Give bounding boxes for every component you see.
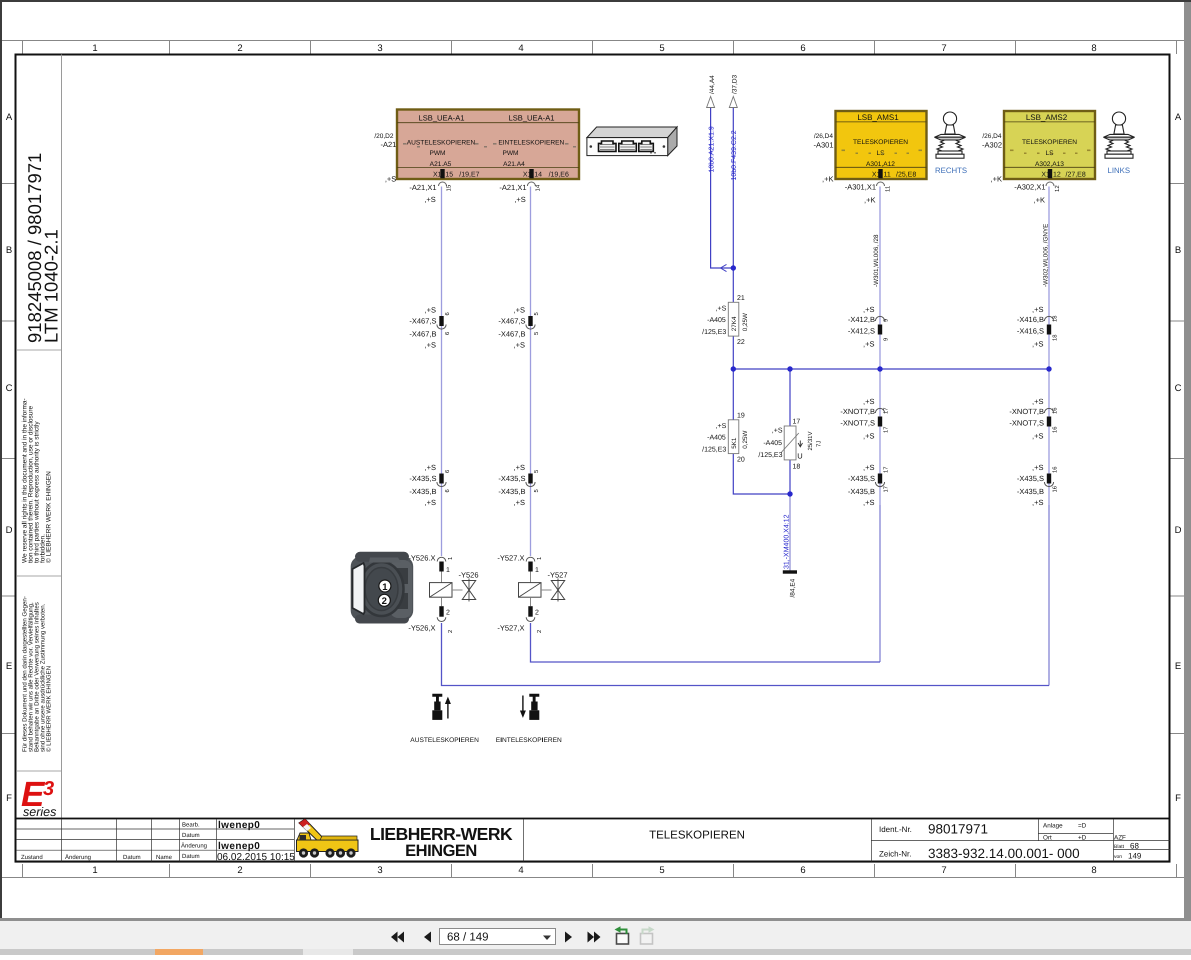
bottom ruler line (2, 877, 1184, 879)
top ruler ticks (23, 41, 1177, 55)
left band section lines (16, 350, 61, 771)
window right gray band (1184, 2, 1191, 921)
UEA left refs (374, 133, 394, 140)
icon: previous view (enabled) (615, 926, 629, 944)
svg-text:6: 6 (444, 489, 451, 492)
horizontal bus node S (733, 368, 1049, 370)
svg-text:© LIEBHERR WERK EHINGEN: © LIEBHERR WERK EHINGEN (46, 666, 53, 752)
svg-text:11: 11 (884, 171, 891, 178)
svg-text:,+S: ,+S (716, 305, 727, 312)
svg-text:C: C (6, 383, 13, 394)
svg-text:0,25W: 0,25W (742, 313, 749, 331)
svg-text:-X467,S: -X467,S (498, 317, 525, 326)
svg-text:-X467,B: -X467,B (498, 330, 525, 339)
svg-text:Bearb.: Bearb. (182, 822, 200, 829)
svg-text:,+S: ,+S (1032, 397, 1043, 406)
svg-text:1: 1 (537, 557, 543, 560)
connector photo Y526.X (351, 552, 414, 624)
svg-text:AZF: AZF (1114, 835, 1126, 842)
svg-text:RECHTS: RECHTS (935, 166, 967, 175)
anlage/ort cells (1043, 823, 1142, 861)
svg-text:/84,E4: /84,E4 (790, 578, 797, 597)
device block LSB_AMS1 (836, 111, 927, 179)
svg-text:,+S: ,+S (514, 306, 525, 315)
svg-text:9: 9 (883, 338, 890, 341)
svg-text:A21.A5: A21.A5 (430, 161, 452, 168)
svg-text:,+S: ,+S (425, 463, 436, 472)
wire UEA-A1 pin15 column (light) (441, 187, 443, 557)
svg-text:16: 16 (1052, 486, 1059, 492)
svg-text:68: 68 (1130, 842, 1139, 851)
svg-text:,+S: ,+S (863, 340, 874, 349)
svg-text:06.02.2015 10:15: 06.02.2015 10:15 (217, 852, 295, 863)
svg-text:/26,D4: /26,D4 (814, 133, 834, 140)
connector X435 (S/B pin 6) (409, 463, 451, 507)
E3 series logo (21, 775, 56, 819)
svg-text:14: 14 (534, 172, 542, 179)
svg-text:-A21: -A21 (380, 140, 396, 149)
svg-text:3: 3 (377, 865, 382, 876)
device block LSB_UEA-A1 (397, 110, 579, 180)
svg-text:68 / 149: 68 / 149 (447, 932, 489, 944)
left info band divider (61, 55, 63, 819)
svg-text:5: 5 (659, 43, 664, 54)
svg-text:-X467,S: -X467,S (409, 317, 436, 326)
wire varistor to junction (789, 460, 791, 494)
svg-text:/125,E3: /125,E3 (702, 328, 726, 336)
svg-text:C: C (1175, 383, 1182, 394)
svg-text:series: series (23, 805, 56, 819)
svg-text:-A302,X1: -A302,X1 (1014, 183, 1045, 192)
svg-text:2: 2 (535, 610, 539, 617)
junction node (731, 265, 736, 270)
svg-text:LSB_UEA-A1: LSB_UEA-A1 (418, 114, 464, 123)
svg-text:17: 17 (884, 467, 890, 473)
svg-text:3: 3 (43, 778, 54, 800)
solenoid valve Y527 (497, 554, 567, 634)
svg-text:,+S: ,+S (772, 428, 783, 435)
direction arrow on wire (721, 264, 727, 271)
UEA pin sockets below block (439, 182, 447, 186)
svg-text:PWM: PWM (502, 150, 518, 157)
svg-text:TELESKOPIEREN: TELESKOPIEREN (649, 830, 745, 842)
svg-text:/20,D2: /20,D2 (374, 133, 394, 140)
svg-text:,+S: ,+S (716, 423, 727, 430)
svg-text:,+S: ,+S (425, 498, 436, 507)
svg-text:/25,E8: /25,E8 (896, 170, 916, 178)
svg-text:-A405: -A405 (707, 317, 726, 324)
svg-text:2: 2 (446, 610, 450, 617)
svg-text:5: 5 (659, 865, 664, 876)
svg-text:EHINGEN: EHINGEN (405, 842, 477, 860)
svg-text:F: F (1175, 793, 1181, 804)
svg-text:20: 20 (737, 456, 745, 463)
svg-text:AUSTELESKOPIEREN: AUSTELESKOPIEREN (410, 737, 479, 744)
svg-text:,+S: ,+S (514, 195, 525, 204)
solenoid valve Y526 (408, 554, 478, 634)
wire below resistor A405/27K4 (732, 336, 734, 420)
svg-text:/44,A4: /44,A4 (709, 75, 716, 94)
svg-text:A302,A13: A302,A13 (1035, 161, 1064, 168)
svg-text:,+S: ,+S (1032, 463, 1043, 472)
svg-text:Datum: Datum (123, 854, 141, 861)
svg-text:7J: 7J (816, 441, 823, 447)
wire Y527 to AMS1 routing (531, 623, 881, 662)
svg-text:-Y526,X: -Y526,X (408, 624, 435, 633)
off-page arrow /44,A4 (707, 97, 715, 108)
taskbar orange thumb (155, 949, 203, 955)
svg-text:1: 1 (448, 557, 454, 560)
svg-text:,+S: ,+S (425, 306, 436, 315)
svg-text:,+S: ,+S (863, 397, 874, 406)
svg-text:A: A (6, 112, 13, 123)
svg-text:5: 5 (534, 470, 540, 473)
nav last button (588, 932, 601, 943)
page combo box (440, 929, 556, 945)
ruler column numbers bottom (92, 865, 1096, 876)
svg-text:EINTELESKOPIEREN: EINTELESKOPIEREN (498, 140, 564, 147)
svg-text:/37,D3: /37,D3 (732, 74, 739, 94)
svg-text:27K4: 27K4 (731, 316, 738, 331)
svg-text:-Y527,X: -Y527,X (497, 624, 524, 633)
row letters left (6, 112, 13, 804)
svg-text:,+S: ,+S (425, 341, 436, 350)
svg-text:LSB_AMS1: LSB_AMS1 (857, 113, 899, 122)
svg-text:1: 1 (446, 567, 450, 574)
svg-text:8: 8 (1091, 43, 1096, 54)
svg-text:-X435,S: -X435,S (1017, 474, 1044, 483)
svg-text:6: 6 (444, 470, 451, 473)
icon EINTELESKOPIEREN (520, 694, 539, 720)
svg-text:A21.A4: A21.A4 (503, 161, 525, 168)
connector XNOT7 (B/S pin 16) (1009, 397, 1058, 441)
right row ticks (1170, 184, 1184, 734)
junction node (1046, 366, 1051, 371)
nav first-page button (391, 932, 404, 943)
wire Y526 to AMS2 routing (442, 623, 1050, 686)
svg-text:-A302: -A302 (982, 141, 1002, 150)
svg-text:-XNOT7,B: -XNOT7,B (840, 407, 875, 416)
svg-text:6: 6 (444, 332, 451, 335)
svg-text:7: 7 (941, 43, 946, 54)
svg-text:17: 17 (793, 419, 801, 426)
svg-text:D: D (6, 525, 13, 536)
svg-text:6: 6 (800, 43, 805, 54)
connector X435 (S/B pin 5) (498, 463, 540, 507)
svg-text:-X416,B: -X416,B (1017, 315, 1044, 324)
svg-text:TELESKOPIEREN: TELESKOPIEREN (1022, 139, 1077, 146)
svg-text:149: 149 (1128, 852, 1142, 861)
svg-text:1: 1 (92, 43, 97, 54)
svg-text:3383-932.14.00.001- 000: 3383-932.14.00.001- 000 (928, 846, 1080, 861)
joystick icon LINKS (1104, 112, 1135, 158)
svg-text:PWM: PWM (429, 150, 445, 157)
junction node (787, 491, 792, 496)
svg-text:-X467,B: -X467,B (409, 330, 436, 339)
svg-text:17: 17 (884, 486, 890, 492)
svg-text:-X435,B: -X435,B (498, 487, 525, 496)
svg-text:,+S: ,+S (385, 175, 396, 184)
svg-text:lwenep0: lwenep0 (218, 820, 260, 831)
revision table lines (16, 819, 1170, 862)
junction node (731, 366, 736, 371)
svg-text:Ort: Ort (1043, 835, 1052, 842)
german disclaimer rotated (22, 596, 53, 752)
connector X435 (S/B pin 17) (848, 463, 890, 507)
wire 10b0.F439.C2.2 (732, 108, 734, 303)
svg-text:10b0.F439.C2.2: 10b0.F439.C2.2 (730, 130, 738, 180)
viewer toolbar background (0, 921, 1191, 949)
window top edge (0, 0, 1191, 2)
svg-text:11: 11 (885, 185, 892, 192)
svg-text:+D: +D (1078, 835, 1087, 842)
svg-text:-X435,S: -X435,S (848, 474, 875, 483)
svg-text:LINKS: LINKS (1108, 166, 1131, 175)
device block LSB_AMS2 (1004, 111, 1095, 179)
svg-text:31,-XM400,X4:12: 31,-XM400,X4:12 (784, 514, 791, 569)
svg-text:6: 6 (444, 312, 451, 315)
svg-text:5: 5 (534, 489, 540, 492)
svg-text:-X412,S: -X412,S (848, 327, 875, 336)
junction node (787, 366, 792, 371)
svg-text:2: 2 (382, 596, 387, 607)
svg-text:Anlage: Anlage (1043, 823, 1063, 830)
svg-text:LSB_AMS2: LSB_AMS2 (1026, 113, 1068, 122)
svg-text:18: 18 (1052, 335, 1059, 341)
svg-text:-A301,X1: -A301,X1 (845, 183, 876, 192)
svg-text:-X435,S: -X435,S (498, 474, 525, 483)
icon: next view (disabled) (641, 926, 655, 944)
svg-text:,+S: ,+S (863, 463, 874, 472)
svg-text:9: 9 (883, 319, 890, 322)
svg-text:16: 16 (1052, 427, 1059, 433)
junction node (877, 366, 882, 371)
svg-text:A301,A12: A301,A12 (866, 161, 895, 168)
svg-text:15: 15 (445, 172, 453, 179)
wire below resistor A405/5K1 (733, 454, 790, 494)
resistor -A405 5K1 (702, 412, 749, 463)
svg-text:D: D (1175, 525, 1182, 536)
svg-text:/19,E6: /19,E6 (549, 171, 569, 179)
svg-text:-X435,B: -X435,B (409, 487, 436, 496)
svg-text:25/31V: 25/31V (807, 431, 814, 450)
svg-text:,+S: ,+S (1032, 305, 1043, 314)
svg-text:-XNOT7,B: -XNOT7,B (1009, 407, 1044, 416)
nav prev button (424, 932, 431, 943)
svg-text:,+S: ,+S (514, 498, 525, 507)
wire varistor branch (789, 369, 791, 426)
svg-text:/26,D4: /26,D4 (982, 133, 1002, 140)
svg-text:LS: LS (1045, 150, 1054, 157)
svg-text:,+S: ,+S (863, 498, 874, 507)
svg-text:12: 12 (1054, 185, 1061, 192)
svg-text:-W302,WL006, /GNYE: -W302,WL006, /GNYE (1042, 224, 1049, 287)
off-page terminator bar (783, 570, 797, 573)
wire 10b0.A21.X1.9 (711, 108, 734, 269)
svg-text:-A21,X1: -A21,X1 (499, 183, 526, 192)
svg-text:21: 21 (737, 295, 745, 302)
svg-text:5K1: 5K1 (731, 437, 738, 449)
svg-text:-Y527.X: -Y527.X (497, 554, 524, 563)
svg-text:A: A (1175, 112, 1182, 123)
svg-text:Datum: Datum (182, 832, 200, 839)
svg-text:8: 8 (1091, 865, 1096, 876)
svg-text:B: B (1175, 245, 1181, 256)
svg-text:=D: =D (1078, 823, 1087, 830)
svg-text:Änderung: Änderung (65, 853, 91, 861)
window bottom shadow line (0, 918, 1191, 921)
svg-text:4: 4 (518, 865, 523, 876)
svg-text:-X412,B: -X412,B (848, 315, 875, 324)
revision values (217, 820, 295, 863)
svg-text:6: 6 (800, 865, 805, 876)
svg-text:4: 4 (518, 43, 523, 54)
svg-text:/27,E8: /27,E8 (1066, 170, 1086, 178)
wire AMS1 column (light) (879, 187, 881, 506)
svg-text:16: 16 (1052, 408, 1059, 414)
svg-text:/19,E7: /19,E7 (459, 171, 479, 179)
svg-text:Zeich-Nr.: Zeich-Nr. (879, 850, 911, 859)
svg-text:,+S: ,+S (424, 195, 435, 204)
svg-text:-Y527: -Y527 (548, 571, 568, 580)
svg-text:18: 18 (793, 464, 801, 471)
svg-text:/125,E3: /125,E3 (702, 445, 726, 453)
joystick icon RECHTS (935, 112, 966, 158)
svg-text:98017971: 98017971 (928, 822, 988, 837)
svg-text:,+K: ,+K (991, 175, 1002, 184)
svg-text:-A405: -A405 (707, 434, 726, 441)
svg-text:2: 2 (536, 630, 543, 633)
svg-text:15: 15 (446, 184, 453, 191)
svg-text:1: 1 (535, 567, 539, 574)
svg-text:2: 2 (237, 43, 242, 54)
svg-text:-XNOT7,S: -XNOT7,S (840, 419, 875, 428)
svg-text:B: B (6, 245, 12, 256)
varistor -A405 25/31V (758, 419, 822, 471)
title block outer border (16, 819, 1170, 862)
svg-text:LIEBHERR-WERK: LIEBHERR-WERK (370, 824, 513, 844)
icon AUSTELESKOPIEREN (432, 694, 451, 720)
svg-text:-X435,S: -X435,S (409, 474, 436, 483)
top ruler line (2, 40, 1184, 42)
svg-text:AUSTELESKOPIEREN: AUSTELESKOPIEREN (407, 140, 476, 147)
svg-text:5: 5 (534, 332, 540, 335)
svg-text:-XNOT7,S: -XNOT7,S (1009, 419, 1044, 428)
taskbar light segment (303, 949, 353, 955)
svg-text:-Y526.X: -Y526.X (408, 554, 435, 563)
svg-text:12: 12 (1053, 171, 1061, 178)
svg-text:U: U (797, 452, 802, 461)
wire UEA-A1 pin14 column (light) (530, 187, 532, 557)
svg-text:© LIEBHERR WERK EHINGEN: © LIEBHERR WERK EHINGEN (46, 471, 53, 563)
svg-text:14: 14 (535, 184, 542, 191)
svg-text:-Y526: -Y526 (459, 571, 479, 580)
svg-text:,+S: ,+S (514, 463, 525, 472)
wire to off-page XM400 (789, 494, 791, 571)
svg-text:Ident.-Nr.: Ident.-Nr. (879, 825, 912, 834)
wire AMS1 column lower (879, 505, 881, 662)
connector X467 (S/B pin 5) (498, 306, 540, 350)
svg-text:-X416,S: -X416,S (1017, 327, 1044, 336)
svg-text:-W301,WL006, /28: -W301,WL006, /28 (873, 234, 880, 287)
svg-text:Zustand: Zustand (21, 854, 43, 861)
bottom ruler ticks (23, 864, 1177, 878)
liebherr crane logo (297, 819, 359, 858)
english disclaimer rotated (22, 398, 53, 563)
svg-text:-A301: -A301 (813, 141, 833, 150)
svg-text:F: F (6, 793, 12, 804)
svg-text:,+K: ,+K (822, 175, 833, 184)
svg-text:Änderung: Änderung (181, 842, 207, 850)
svg-text:7: 7 (941, 865, 946, 876)
svg-text:Blatt: Blatt (1114, 844, 1125, 850)
svg-text:Name: Name (156, 854, 173, 861)
svg-text:E: E (1175, 661, 1181, 672)
wire AMS2 column (light) (1048, 187, 1050, 506)
connector X435 (S/B pin 16) (1017, 463, 1059, 507)
resistor -A405 27K4 (702, 295, 749, 346)
svg-text:LSB_UEA-A1: LSB_UEA-A1 (508, 114, 554, 123)
svg-text:EINTELESKOPIEREN: EINTELESKOPIEREN (496, 737, 562, 744)
svg-text:,+S: ,+S (1032, 498, 1043, 507)
svg-text:918245008 / 98017971: 918245008 / 98017971 (24, 153, 45, 343)
svg-text:,+S: ,+S (863, 432, 874, 441)
svg-text:1: 1 (92, 865, 97, 876)
svg-text:lwenep0: lwenep0 (218, 841, 260, 852)
revision table labels (21, 822, 207, 862)
svg-text:,+S: ,+S (863, 305, 874, 314)
svg-text:5: 5 (534, 312, 540, 315)
svg-text:2: 2 (237, 865, 242, 876)
svg-text:-A405: -A405 (763, 440, 782, 447)
svg-text:/125,E3: /125,E3 (758, 451, 782, 459)
svg-text:0,25W: 0,25W (742, 431, 749, 449)
wire AMS2 column lower (1048, 505, 1050, 686)
svg-text:-A21,X1: -A21,X1 (409, 183, 436, 192)
ruler column numbers top (92, 43, 1096, 54)
left row ticks (2, 184, 15, 734)
svg-text:,+K: ,+K (1034, 196, 1045, 205)
svg-text:3: 3 (377, 43, 382, 54)
svg-text:TELESKOPIEREN: TELESKOPIEREN (853, 139, 908, 146)
connector X467 (S/B pin 6) (409, 306, 451, 350)
svg-text:1: 1 (382, 582, 388, 593)
row letters right (1175, 112, 1182, 804)
svg-text:,+S: ,+S (1032, 340, 1043, 349)
connector X412 (B/S pin 9) (848, 305, 890, 349)
ECU module 3D icon (587, 127, 677, 156)
svg-text:,+K: ,+K (864, 196, 875, 205)
svg-text:17: 17 (884, 427, 890, 433)
connector X416 (B/S pin 18) (1017, 305, 1059, 349)
window left edge (0, 0, 2, 921)
off-page arrow /37,D3 (729, 97, 737, 108)
svg-text:Datum: Datum (182, 853, 200, 860)
svg-text:16: 16 (1052, 467, 1059, 473)
svg-text:von: von (1114, 854, 1122, 860)
nav next button (565, 932, 572, 943)
taskbar strip (0, 949, 1191, 955)
svg-text:18: 18 (1052, 316, 1059, 322)
svg-text:E: E (6, 661, 12, 672)
svg-text:-X435,B: -X435,B (848, 487, 875, 496)
svg-text:22: 22 (737, 339, 745, 346)
svg-text:,+S: ,+S (1032, 432, 1043, 441)
svg-text:10b0.A21.X1.9: 10b0.A21.X1.9 (708, 126, 716, 172)
svg-text:19: 19 (737, 412, 745, 419)
svg-text:,+S: ,+S (514, 341, 525, 350)
svg-text:2: 2 (447, 630, 454, 633)
